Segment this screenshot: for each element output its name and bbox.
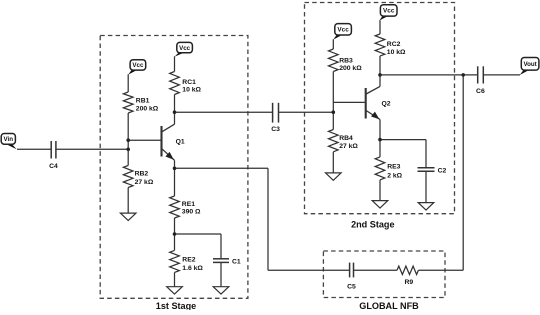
svg-text:390 Ω: 390 Ω: [182, 208, 201, 215]
svg-text:RB2: RB2: [135, 171, 149, 178]
svg-text:RB3: RB3: [339, 57, 353, 64]
svg-text:Vin: Vin: [4, 136, 14, 143]
svg-text:C5: C5: [347, 284, 356, 291]
svg-text:Vcc: Vcc: [337, 27, 349, 34]
svg-text:C4: C4: [49, 163, 58, 170]
svg-text:RE2: RE2: [182, 257, 195, 264]
svg-text:C1: C1: [232, 259, 241, 266]
svg-text:2nd Stage: 2nd Stage: [351, 219, 394, 229]
svg-text:C6: C6: [476, 88, 485, 95]
svg-text:200 kΩ: 200 kΩ: [339, 65, 362, 72]
svg-text:R9: R9: [404, 279, 413, 286]
svg-text:2 kΩ: 2 kΩ: [387, 172, 402, 179]
svg-text:RB1: RB1: [136, 98, 150, 105]
svg-text:10 kΩ: 10 kΩ: [387, 49, 406, 56]
svg-text:C2: C2: [438, 167, 447, 174]
svg-text:Vcc: Vcc: [179, 45, 191, 52]
svg-text:10 kΩ: 10 kΩ: [182, 86, 201, 93]
svg-text:RB4: RB4: [339, 135, 353, 142]
svg-text:Vcc: Vcc: [383, 8, 395, 15]
svg-text:RE3: RE3: [387, 163, 400, 170]
svg-text:200 kΩ: 200 kΩ: [136, 105, 159, 112]
svg-text:27 kΩ: 27 kΩ: [135, 179, 154, 186]
svg-text:27 kΩ: 27 kΩ: [339, 143, 358, 150]
svg-text:1st Stage: 1st Stage: [156, 301, 196, 310]
svg-text:Vcc: Vcc: [132, 62, 144, 69]
svg-text:Q1: Q1: [176, 139, 185, 146]
svg-text:RC2: RC2: [387, 41, 401, 48]
svg-text:RC1: RC1: [182, 79, 196, 86]
svg-text:Vout: Vout: [523, 61, 536, 68]
svg-text:C3: C3: [271, 126, 280, 133]
svg-text:GLOBAL NFB: GLOBAL NFB: [359, 301, 419, 310]
svg-text:RE1: RE1: [182, 201, 195, 208]
svg-text:Q2: Q2: [382, 101, 391, 108]
svg-text:1.6 kΩ: 1.6 kΩ: [182, 265, 203, 272]
